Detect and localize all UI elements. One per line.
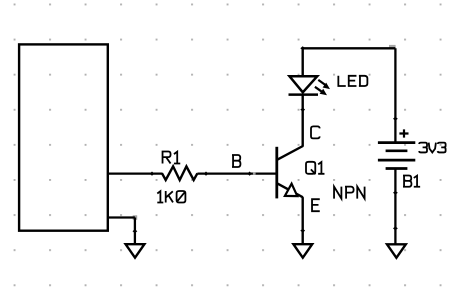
label LED bbox=[338, 76, 367, 86]
pin dot (resistor R1 right pin end) bbox=[204, 172, 209, 176]
label R1 bbox=[163, 152, 181, 164]
gray corner marker top right bbox=[389, 45, 396, 49]
pin dot (emitter ground pin) bbox=[300, 229, 305, 233]
label E (emitter) bbox=[312, 199, 320, 211]
junction dot on node B bbox=[247, 172, 252, 176]
LED light arrow 2 bbox=[315, 87, 327, 96]
label B1 bbox=[403, 176, 420, 187]
gray pin marker on node B bbox=[253, 172, 256, 175]
label B (base net) bbox=[232, 155, 240, 167]
pin dot (battery positive pin) bbox=[393, 117, 398, 121]
ground symbol (battery) bbox=[387, 244, 406, 257]
battery top wire bbox=[394, 48, 396, 142]
label 3V3 bbox=[419, 143, 446, 153]
top supply wire bbox=[303, 47, 396, 49]
resistor R1 bbox=[162, 166, 197, 180]
collector wire vertical bbox=[302, 95, 304, 147]
junction dot at LED top node bbox=[300, 46, 305, 50]
label Q1 bbox=[306, 162, 324, 174]
ground symbol (box) bbox=[126, 244, 145, 258]
pin dot (resistor R1 left pin end) bbox=[150, 172, 155, 176]
pin dot (battery ground pin) bbox=[393, 226, 398, 230]
battery B1 plate long lower bbox=[378, 159, 415, 162]
transistor Q1 emitter diagonal bbox=[277, 183, 303, 197]
junction dot (box ground pin) bbox=[133, 229, 138, 233]
box ground wire horizontal bbox=[108, 216, 135, 218]
wire node B from resistor to transistor base bbox=[197, 173, 276, 175]
label + (battery polarity) bbox=[399, 129, 408, 137]
gray corner marker box lower wire bbox=[133, 215, 138, 220]
transistor Q1 base bar bbox=[275, 147, 278, 199]
pin dot (LED cathode pin) bbox=[300, 108, 305, 112]
battery B1 plate short bottom bbox=[386, 167, 408, 170]
LED D1 cathode bar bbox=[289, 93, 319, 96]
battery B1 plate long top bbox=[378, 141, 415, 144]
label C (collector) bbox=[311, 126, 320, 138]
ground symbol (emitter) bbox=[293, 244, 312, 258]
label 1K0 bbox=[157, 191, 185, 203]
wire from box to resistor R1 bbox=[108, 173, 163, 175]
transistor Q1 collector diagonal bbox=[277, 146, 303, 160]
battery bottom wire bbox=[394, 169, 396, 245]
LED anode wire vertical bbox=[302, 48, 304, 77]
LED light arrow 1 bbox=[318, 80, 330, 89]
emitter wire vertical bbox=[302, 197, 304, 244]
box U1 (module outline) bbox=[19, 44, 108, 230]
LED D1 triangle bbox=[290, 76, 318, 92]
box ground wire vertical bbox=[134, 218, 136, 245]
battery B1 plate short upper bbox=[386, 149, 408, 152]
transistor Q1 emitter arrow bbox=[285, 184, 297, 196]
pin dot (battery negative pin) bbox=[393, 191, 398, 195]
label NPN bbox=[334, 187, 365, 199]
